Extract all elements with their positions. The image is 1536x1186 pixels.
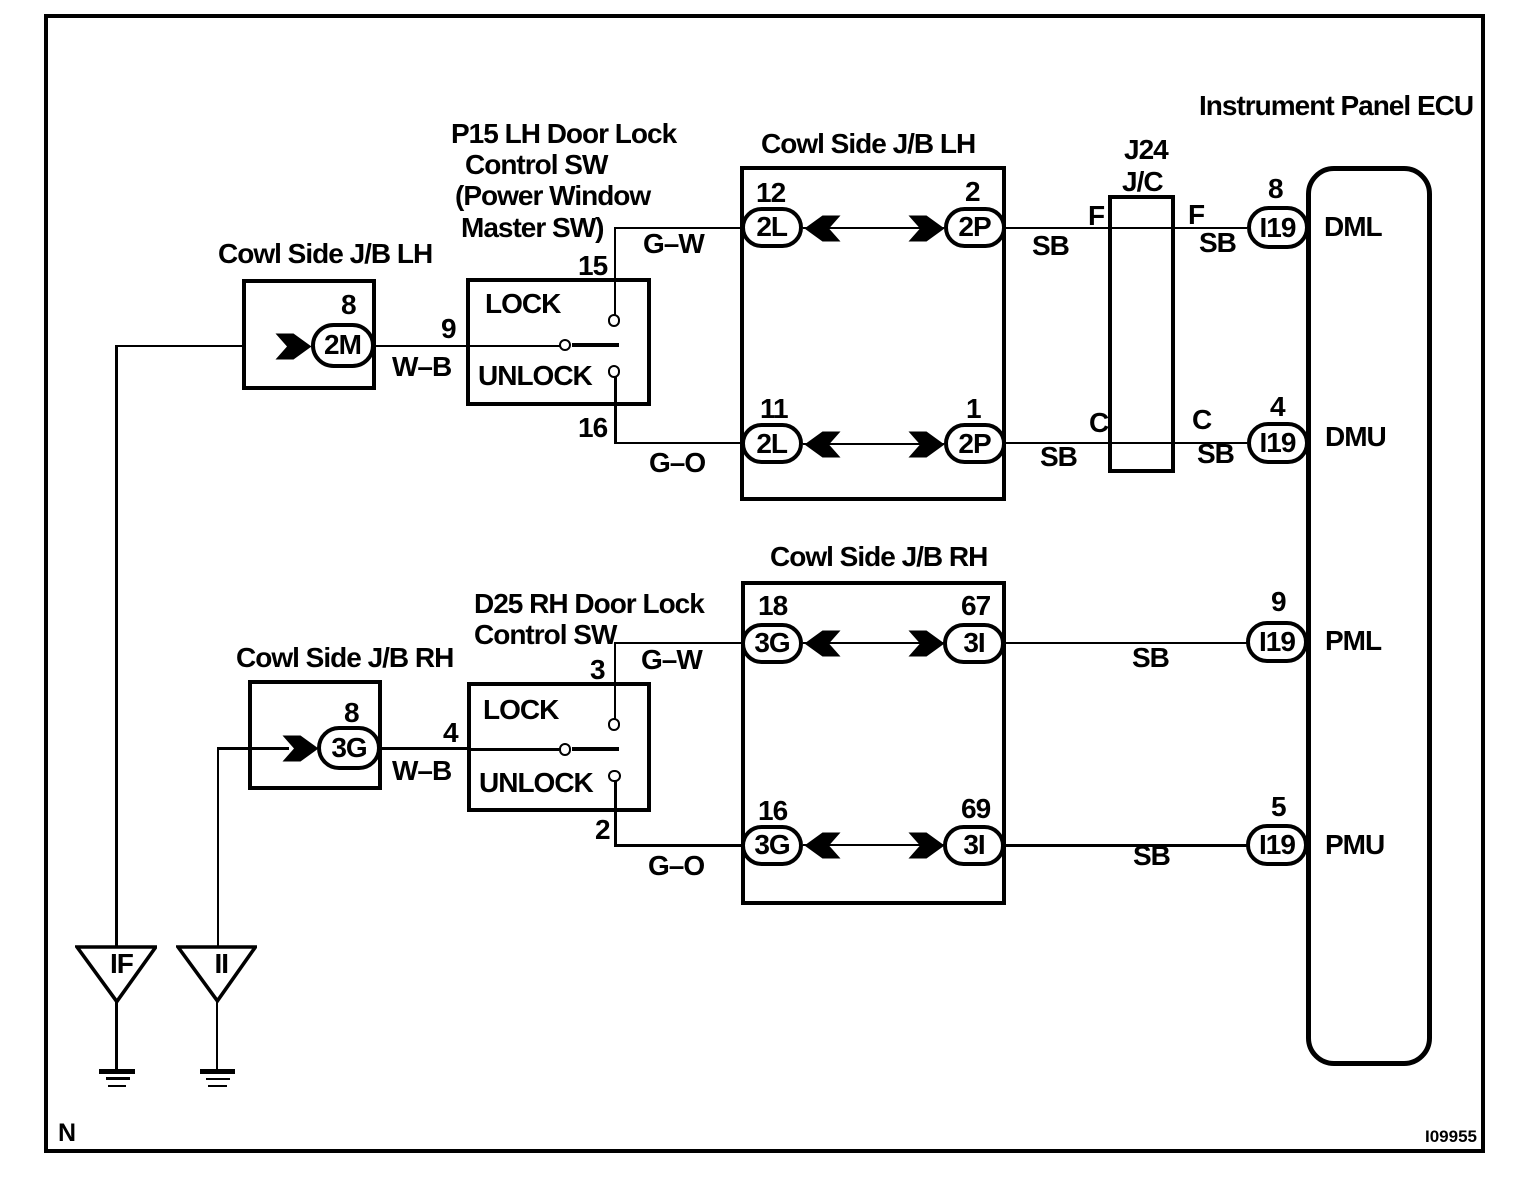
wire 3G-3I top (803, 642, 944, 644)
pin 16 label (3G bottom) (758, 797, 787, 825)
page marker N (58, 1121, 75, 1146)
wire SB 3I to I19 (PML) (1005, 642, 1247, 644)
wire color W-B (RH) (392, 757, 451, 785)
connector 3G (pin18) (741, 623, 803, 664)
ground IF bar1 (99, 1069, 135, 1074)
arrow into 2M (275, 333, 312, 360)
ground triangle II label (215, 950, 229, 978)
wire color SB (DMU right) (1197, 440, 1234, 468)
wire color G-O (RH) (648, 852, 704, 880)
wire SB 2P to I19 (DMU) (1005, 442, 1247, 444)
arrow right (top row RH) (908, 630, 945, 657)
arrow right (bottom row LH) (908, 431, 945, 458)
connector I19 (PMU) (1246, 824, 1308, 866)
arrow right (top row LH) (908, 215, 945, 242)
LOCK label (P15) (485, 290, 560, 318)
connector 3I (pin67) (943, 623, 1005, 664)
pin 18 label (758, 592, 787, 620)
wire pin16 horizontal G-O (614, 442, 741, 445)
LOCK label (D25) (483, 696, 558, 724)
pin 8 label (I19 DML) (1268, 175, 1283, 203)
contact LOCK (P15) (608, 314, 620, 326)
pin 67 label (961, 592, 990, 620)
wire color SB (DML left) (1032, 232, 1069, 260)
junction box J/B RH (741, 581, 1006, 905)
connector I19 (DML) (1247, 206, 1309, 249)
ground triangle IF (75, 945, 158, 1004)
wire color SB (PML) (1132, 644, 1169, 672)
pin 8 label (3G) (344, 699, 359, 727)
ground II bar1 (200, 1069, 235, 1074)
connector 2L (pin11) (741, 423, 803, 464)
wire 2L-2P bottom (803, 443, 944, 445)
UNLOCK label (P15) (478, 362, 592, 390)
connector 3G (grommet) (317, 726, 381, 770)
UNLOCK label (D25) (479, 769, 593, 797)
arrow right (bottom row RH) (908, 832, 945, 859)
arrow left (bottom row LH) (804, 431, 841, 458)
contact UNLOCK (P15) (608, 365, 620, 377)
wire color W-B (LH) (392, 353, 451, 381)
wire 3G-3I bottom (803, 844, 944, 846)
wire color SB (PMU) (1133, 842, 1170, 870)
label Cowl Side J/B RH (junction box) (770, 543, 987, 571)
wire D25 common feed (467, 748, 559, 751)
wire pin2 vertical (614, 781, 617, 846)
label D25 line2 (474, 621, 616, 649)
switch blade (P15) (572, 343, 619, 347)
wire pin9 2M to P15 (374, 345, 467, 348)
connector I19 (PML) (1246, 621, 1308, 663)
arrow into 3G (282, 735, 319, 762)
wire color G-W (LH) (643, 230, 704, 258)
label P15 line4 (461, 214, 603, 242)
pin 2 label (2P top) (965, 178, 980, 206)
ground IF bar2 (106, 1077, 131, 1080)
net DMU (1325, 423, 1386, 451)
connector 3G (pin16) (741, 825, 803, 866)
label Instrument Panel ECU (1199, 92, 1473, 120)
node F left (1088, 202, 1104, 230)
wire W-B 3G to ground node (217, 747, 289, 750)
wire IF triangle to ground (115, 1000, 118, 1069)
wire color G-O (LH) (649, 449, 705, 477)
pin 15 label (578, 252, 607, 280)
label Cowl Side J/B LH (grommet box) (218, 240, 432, 268)
wire pin15 vertical (614, 227, 617, 315)
ground triangle II (176, 945, 257, 1003)
label P15 line1 (451, 120, 676, 148)
wire SB 2P to I19 (DML) (1005, 227, 1247, 229)
label J/C (1122, 168, 1163, 196)
wire vertical to IF ground (115, 345, 118, 948)
wire color SB (DML right) (1199, 229, 1236, 257)
wire pin4 3G to D25 (380, 747, 467, 750)
pin 4 label (I19 DMU) (1270, 393, 1285, 421)
wire 2L-2P top (803, 227, 944, 229)
arrow left (top row RH) (804, 630, 841, 657)
pin 2 label (D25) (595, 816, 610, 844)
ground triangle IF label (110, 950, 133, 978)
label D25 line1 (474, 590, 704, 618)
ECU box (Instrument Panel ECU) (1306, 166, 1432, 1066)
junction connector J24 J/C (1108, 195, 1175, 473)
node C right (1192, 406, 1211, 434)
label P15 line2 (465, 151, 607, 179)
pin 5 label (I19 PMU) (1271, 793, 1286, 821)
contact common (P15) (559, 339, 571, 351)
connector I19 (DMU) (1247, 422, 1309, 464)
ground IF bar3 (108, 1085, 126, 1087)
pin 16 label (578, 414, 607, 442)
net PMU (1325, 831, 1384, 859)
pin 1 label (2P bottom) (966, 395, 981, 423)
contact UNLOCK (D25) (608, 770, 620, 782)
pin 9 label (I19 PML) (1271, 588, 1286, 616)
pin 8 label (341, 291, 356, 319)
label J24 (1124, 136, 1168, 164)
switch box P15 (466, 278, 651, 406)
ground II bar3 (208, 1085, 227, 1087)
junction block J/B LH (2M) (242, 279, 376, 390)
node C left (1089, 409, 1108, 437)
junction box J/B LH (740, 166, 1006, 501)
connector 2M (311, 323, 375, 368)
wire pin15 horizontal G-W (614, 227, 742, 230)
connector 2P (pin2) (944, 207, 1006, 248)
wire II triangle to ground (216, 999, 219, 1069)
wire vertical to II ground (217, 747, 220, 947)
label Cowl Side J/B LH (junction box) (761, 130, 975, 158)
net PML (1325, 627, 1381, 655)
connector 3I (pin69) (943, 825, 1005, 866)
arrow left (bottom row RH) (804, 832, 841, 859)
connector 2P (pin1) (944, 423, 1006, 464)
figure number I09955 (1425, 1128, 1477, 1145)
wire pin3 horizontal G-W (614, 642, 743, 645)
switch blade (D25) (572, 747, 619, 751)
connector 2L (pin12) (741, 207, 803, 248)
contact LOCK (D25) (608, 718, 620, 730)
node F right (1188, 201, 1204, 229)
pin 12 label (756, 179, 785, 207)
pin 69 label (961, 795, 990, 823)
pin 3 label (590, 656, 605, 684)
wire P15 common feed (466, 345, 560, 348)
ground II bar2 (206, 1078, 230, 1081)
wire W-B 2M to ground node (115, 345, 242, 348)
wire color SB (DMU left) (1040, 443, 1077, 471)
net DML (1324, 213, 1382, 241)
pin 4 label (D25) (443, 719, 458, 747)
switch box D25 (467, 682, 651, 812)
junction block J/B RH (3G) (248, 680, 382, 790)
arrow left (top row LH) (804, 215, 841, 242)
wire color G-W (RH) (641, 646, 702, 674)
contact common (D25) (559, 743, 571, 755)
label Cowl Side J/B RH (grommet box) (236, 644, 453, 672)
pin 9 label (441, 315, 456, 343)
wire SB 3I to I19 (PMU) (1005, 844, 1247, 847)
wire pin16 vertical (614, 377, 617, 444)
wire pin3 vertical (614, 642, 617, 719)
label P15 line3 (455, 182, 650, 210)
pin 11 label (760, 395, 788, 423)
wire pin2 horizontal G-O (614, 844, 742, 847)
